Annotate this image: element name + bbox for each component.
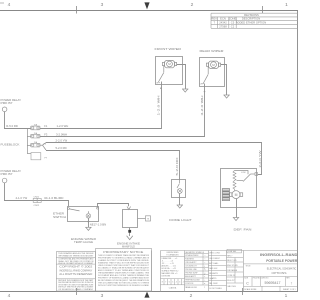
svg-text:FILE 417: FILE 417 xyxy=(227,280,234,282)
svg-text:1: 1 xyxy=(285,293,288,299)
svg-text:ELECTRICAL SCHEMATIC: ELECTRICAL SCHEMATIC xyxy=(267,266,297,270)
svg-text:3: 3 xyxy=(179,281,180,283)
rear wiper motor M2 xyxy=(206,61,220,68)
svg-text:STRAIGHTNESS: STRAIGHTNESS xyxy=(185,254,199,257)
svg-text:24342: 24342 xyxy=(219,21,227,25)
svg-text:DIM IN MM: DIM IN MM xyxy=(162,276,171,278)
drawing number row xyxy=(244,277,298,292)
svg-text:6: 6 xyxy=(169,281,170,283)
wire 5-2.0 RD to dome light xyxy=(46,151,180,180)
svg-text:○: ○ xyxy=(204,262,205,264)
def fan motor M3 xyxy=(229,191,242,199)
fuse F5 xyxy=(31,143,40,147)
ether switch lamp xyxy=(86,214,91,219)
thermo element T xyxy=(138,217,146,219)
svg-text:FRONT WIPER: FRONT WIPER xyxy=(155,47,183,51)
border top line xyxy=(0,10,298,12)
svg-text:NE17-1.0 BN: NE17-1.0 BN xyxy=(90,223,106,227)
svg-text:2: 2 xyxy=(191,2,194,8)
title block left cell text xyxy=(58,252,94,265)
svg-text:SWITCH: SWITCH xyxy=(53,215,66,219)
tag column xyxy=(227,249,244,283)
arrow into intake manifold xyxy=(127,207,131,210)
svg-text:ADDED ETHER OPTION: ADDED ETHER OPTION xyxy=(236,21,266,25)
svg-text:PERPENDICULAR: PERPENDICULAR xyxy=(185,279,200,282)
svg-text:WHOLE OR PART WITHOUT CONSENT: WHOLE OR PART WITHOUT CONSENT xyxy=(58,262,94,265)
svg-text:REAR WIPER: REAR WIPER xyxy=(200,49,225,53)
svg-text:4: 4 xyxy=(8,293,11,299)
wire relay K1 to fuseblock xyxy=(4,128,31,130)
intake manifold block dot xyxy=(128,230,131,233)
svg-text:1-2.0 WH: 1-2.0 WH xyxy=(57,124,69,128)
wire relay K2 to ether switch xyxy=(4,201,69,207)
svg-text:ZONE: ZONE xyxy=(229,17,237,21)
wire rear wiper down xyxy=(204,84,206,138)
svg-text:POSITION: POSITION xyxy=(185,283,194,285)
svg-text:CYLINDRICITY: CYLINDRICITY xyxy=(185,266,198,268)
ether switch box xyxy=(68,207,99,222)
ground rear wiper xyxy=(223,95,229,98)
svg-text:DO NOT SCALE: DO NOT SCALE xyxy=(209,287,222,290)
border bottom line xyxy=(0,291,298,293)
svg-text:DOME LIGHT: DOME LIGHT xyxy=(169,218,192,222)
wire def fan motor to ground xyxy=(236,199,238,218)
connector CN21 xyxy=(33,198,41,202)
svg-text:3: 3 xyxy=(101,2,104,8)
svg-text:PRK B7: PRK B7 xyxy=(1,101,14,105)
svg-text:GEOMETRIC SYMBOLS: GEOMETRIC SYMBOLS xyxy=(185,252,205,254)
svg-text:REVISIONS: REVISIONS xyxy=(244,13,259,17)
front wiper switch xyxy=(158,66,163,82)
ground dome light xyxy=(177,205,183,208)
svg-text:ANGULARITY: ANGULARITY xyxy=(185,275,197,278)
svg-text:PARALLELISM: PARALLELISM xyxy=(185,286,197,289)
ether switch contact xyxy=(68,208,70,210)
svg-text:8: 8 xyxy=(162,281,163,283)
svg-text:DESCRIPTION: DESCRIPTION xyxy=(242,17,260,21)
ground def fan xyxy=(233,218,239,221)
svg-text:ALL RIGHTS RESERVED: ALL RIGHTS RESERVED xyxy=(59,273,92,276)
geometric symbols column xyxy=(185,254,209,286)
wire rear wiper to ground xyxy=(221,65,227,96)
svg-text:INGERSOLL-RAND: INGERSOLL-RAND xyxy=(260,253,298,257)
front wiper motor M1 xyxy=(162,60,176,67)
svg-text:3-2.0WH: 3-2.0WH xyxy=(56,132,67,136)
svg-text:LOW: LOW xyxy=(241,172,246,174)
svg-text:APP J.HALL: APP J.HALL xyxy=(209,262,218,265)
svg-text:1: 1 xyxy=(285,2,288,8)
dome light switch xyxy=(177,179,180,188)
rear wiper box xyxy=(200,58,225,87)
svg-text:MANIFOLD: MANIFOLD xyxy=(122,245,135,249)
svg-text:REL 24342: REL 24342 xyxy=(209,283,217,285)
wire ether switch to intake manifold xyxy=(98,204,129,208)
svg-text:CN22: CN22 xyxy=(34,205,40,207)
def fan resistor block xyxy=(222,189,229,201)
svg-text:3: 3 xyxy=(101,293,104,299)
def fan input terminal xyxy=(255,173,258,176)
ground ether switch xyxy=(85,227,91,230)
svg-text:C2: C2 xyxy=(231,25,235,29)
svg-text:ENG XP-185: ENG XP-185 xyxy=(227,265,237,267)
svg-text:OF INGERSOLL-RAND COMPANY: OF INGERSOLL-RAND COMPANY xyxy=(58,288,94,291)
zone tick bottom right xyxy=(242,288,244,295)
svg-text:C5: C5 xyxy=(231,21,235,25)
power relay K1 xyxy=(2,107,7,112)
svg-text:R-5.0 RD: R-5.0 RD xyxy=(6,124,18,128)
svg-text:PROFILE SURF: PROFILE SURF xyxy=(185,273,197,275)
svg-text:CHK R.WEST: CHK R.WEST xyxy=(209,258,220,260)
title block left cell rules xyxy=(56,258,95,279)
svg-text:34-1.0 BL/RD: 34-1.0 BL/RD xyxy=(44,196,64,200)
svg-text:1-2.0 WH: 1-2.0 WH xyxy=(157,95,161,115)
wire F3 output xyxy=(40,136,205,138)
svg-text:C: C xyxy=(246,281,249,285)
svg-text:DATE 4/02: DATE 4/02 xyxy=(209,267,217,270)
splice after fuse F5 xyxy=(40,143,46,151)
svg-text:WITHOUT WRITTEN PERMISSION OF: WITHOUT WRITTEN PERMISSION OF INGERSOLL-… xyxy=(98,284,149,287)
svg-text:27568: 27568 xyxy=(219,25,227,29)
def fan resistor R1 xyxy=(233,171,236,191)
fuse F1 xyxy=(31,126,40,130)
svg-text:CIRCULARITY: CIRCULARITY xyxy=(185,261,197,264)
svg-text:PROPRIETARY NOTICE: PROPRIETARY NOTICE xyxy=(103,250,143,254)
revisions table xyxy=(211,13,298,28)
svg-text:SCALE NONE: SCALE NONE xyxy=(244,288,257,291)
wire 2-2.0 YW to def fan xyxy=(46,143,262,175)
intake manifold drain lead xyxy=(129,228,131,237)
svg-text:T: T xyxy=(147,217,149,221)
svg-text:CODE 59: CODE 59 xyxy=(227,275,235,277)
svg-text:2: 2 xyxy=(183,281,184,283)
svg-text:MFG APPD: MFG APPD xyxy=(209,272,219,275)
corner trim dash xyxy=(0,2,4,4)
zone tick top right xyxy=(262,6,264,14)
svg-text:4-1.0 YW: 4-1.0 YW xyxy=(16,196,28,200)
wire front wiper to ground xyxy=(177,65,186,90)
svg-text:TEMP GAUGE: TEMP GAUGE xyxy=(74,240,93,244)
power relay K2 xyxy=(2,178,7,183)
tolerances column xyxy=(166,252,179,256)
wire ether switch to ground xyxy=(88,218,90,227)
ether switch terminal 2 xyxy=(97,207,99,209)
svg-text:ECN: ECN xyxy=(220,17,226,21)
center arrow top xyxy=(144,2,149,9)
svg-text:MFG P-185: MFG P-185 xyxy=(227,260,236,262)
svg-text:SHEET 1 OF 1: SHEET 1 OF 1 xyxy=(283,289,296,291)
center arrow bottom xyxy=(144,292,149,298)
svg-text:REV 7: REV 7 xyxy=(227,255,232,257)
zone tick top left xyxy=(76,6,78,14)
fuse F3 xyxy=(31,134,40,138)
svg-text:5: 5 xyxy=(172,281,173,283)
svg-text:TITLE: TITLE xyxy=(246,266,252,268)
svg-text:2-2.0 YW: 2-2.0 YW xyxy=(56,139,68,143)
front wiper box xyxy=(156,57,183,85)
svg-text:REV: REV xyxy=(211,17,217,21)
revisions table text xyxy=(211,13,266,29)
junction ether box bottom xyxy=(88,221,90,223)
wire dome light to ground xyxy=(179,193,181,205)
svg-text:CN21: CN21 xyxy=(34,197,40,199)
svg-text:U-4B TAG: U-4B TAG xyxy=(228,250,237,253)
svg-text:FUSEBLOCK: FUSEBLOCK xyxy=(1,142,20,146)
svg-text:4: 4 xyxy=(176,281,177,283)
svg-text:COPYRIGHT © 2002: COPYRIGHT © 2002 xyxy=(59,266,93,269)
title block outline xyxy=(57,249,299,292)
svg-text:DWG NO.: DWG NO. xyxy=(261,278,269,280)
svg-text:59695417: 59695417 xyxy=(265,281,281,285)
wire relay K1 down xyxy=(4,112,6,129)
svg-text:CLASS A: CLASS A xyxy=(169,286,177,289)
junction rear wiper wire xyxy=(204,91,206,93)
dome light lamp xyxy=(177,189,182,194)
svg-text:7: 7 xyxy=(165,281,166,283)
fuse spare box xyxy=(31,153,41,160)
fuseblock bus wire xyxy=(27,128,31,154)
svg-text:QA APPD: QA APPD xyxy=(209,277,217,280)
intake manifold arrow xyxy=(127,236,133,240)
svg-text:FSCM NO.: FSCM NO. xyxy=(253,278,262,280)
svg-text:FLATNESS: FLATNESS xyxy=(185,258,194,261)
border right line xyxy=(297,10,299,292)
svg-text:DEF. FAN: DEF. FAN xyxy=(234,227,252,231)
ether switch arm xyxy=(69,209,79,211)
ether switch lamp lead xyxy=(87,211,89,213)
def fan switch xyxy=(235,171,256,182)
svg-text:INFORMATION THEREON IS SECRET: INFORMATION THEREON IS SECRET xyxy=(58,255,94,258)
junction front wiper wire xyxy=(160,87,162,89)
def fan box xyxy=(221,169,257,208)
svg-text:PRK B7: PRK B7 xyxy=(1,172,14,176)
ground front wiper xyxy=(182,89,188,92)
company banner xyxy=(260,253,298,263)
svg-text:DRN D.LONG: DRN D.LONG xyxy=(209,253,220,255)
svg-text:2: 2 xyxy=(190,293,193,299)
svg-text:M: M xyxy=(235,193,238,197)
svg-text:INGERSOLL-RAND COMPANY: INGERSOLL-RAND COMPANY xyxy=(59,269,92,272)
zone tick bottom left xyxy=(76,288,78,295)
svg-text:OPTIONS: OPTIONS xyxy=(272,271,287,275)
wire front wiper down xyxy=(161,82,163,130)
engine intake manifold box xyxy=(123,210,138,228)
svg-text:S/N RANGE: S/N RANGE xyxy=(227,269,238,272)
svg-text:PORTABLE POWER: PORTABLE POWER xyxy=(266,259,298,263)
svg-text:2-2.0 YW: 2-2.0 YW xyxy=(258,150,262,168)
svg-text:3-2.0 WH: 3-2.0 WH xyxy=(200,95,204,115)
approvals column xyxy=(209,251,227,287)
svg-text:CAD DWG: CAD DWG xyxy=(227,285,236,288)
svg-text:5-2.0 RD: 5-2.0 RD xyxy=(175,157,179,175)
rear wiper switch xyxy=(203,66,208,83)
dome light box xyxy=(172,180,186,198)
wire F1 output xyxy=(40,128,162,130)
svg-text:5-2.0 RD: 5-2.0 RD xyxy=(56,146,67,150)
svg-text:PROFILE LINE: PROFILE LINE xyxy=(185,269,197,271)
svg-text:4: 4 xyxy=(8,2,11,8)
wire relay K2 down xyxy=(4,183,6,201)
